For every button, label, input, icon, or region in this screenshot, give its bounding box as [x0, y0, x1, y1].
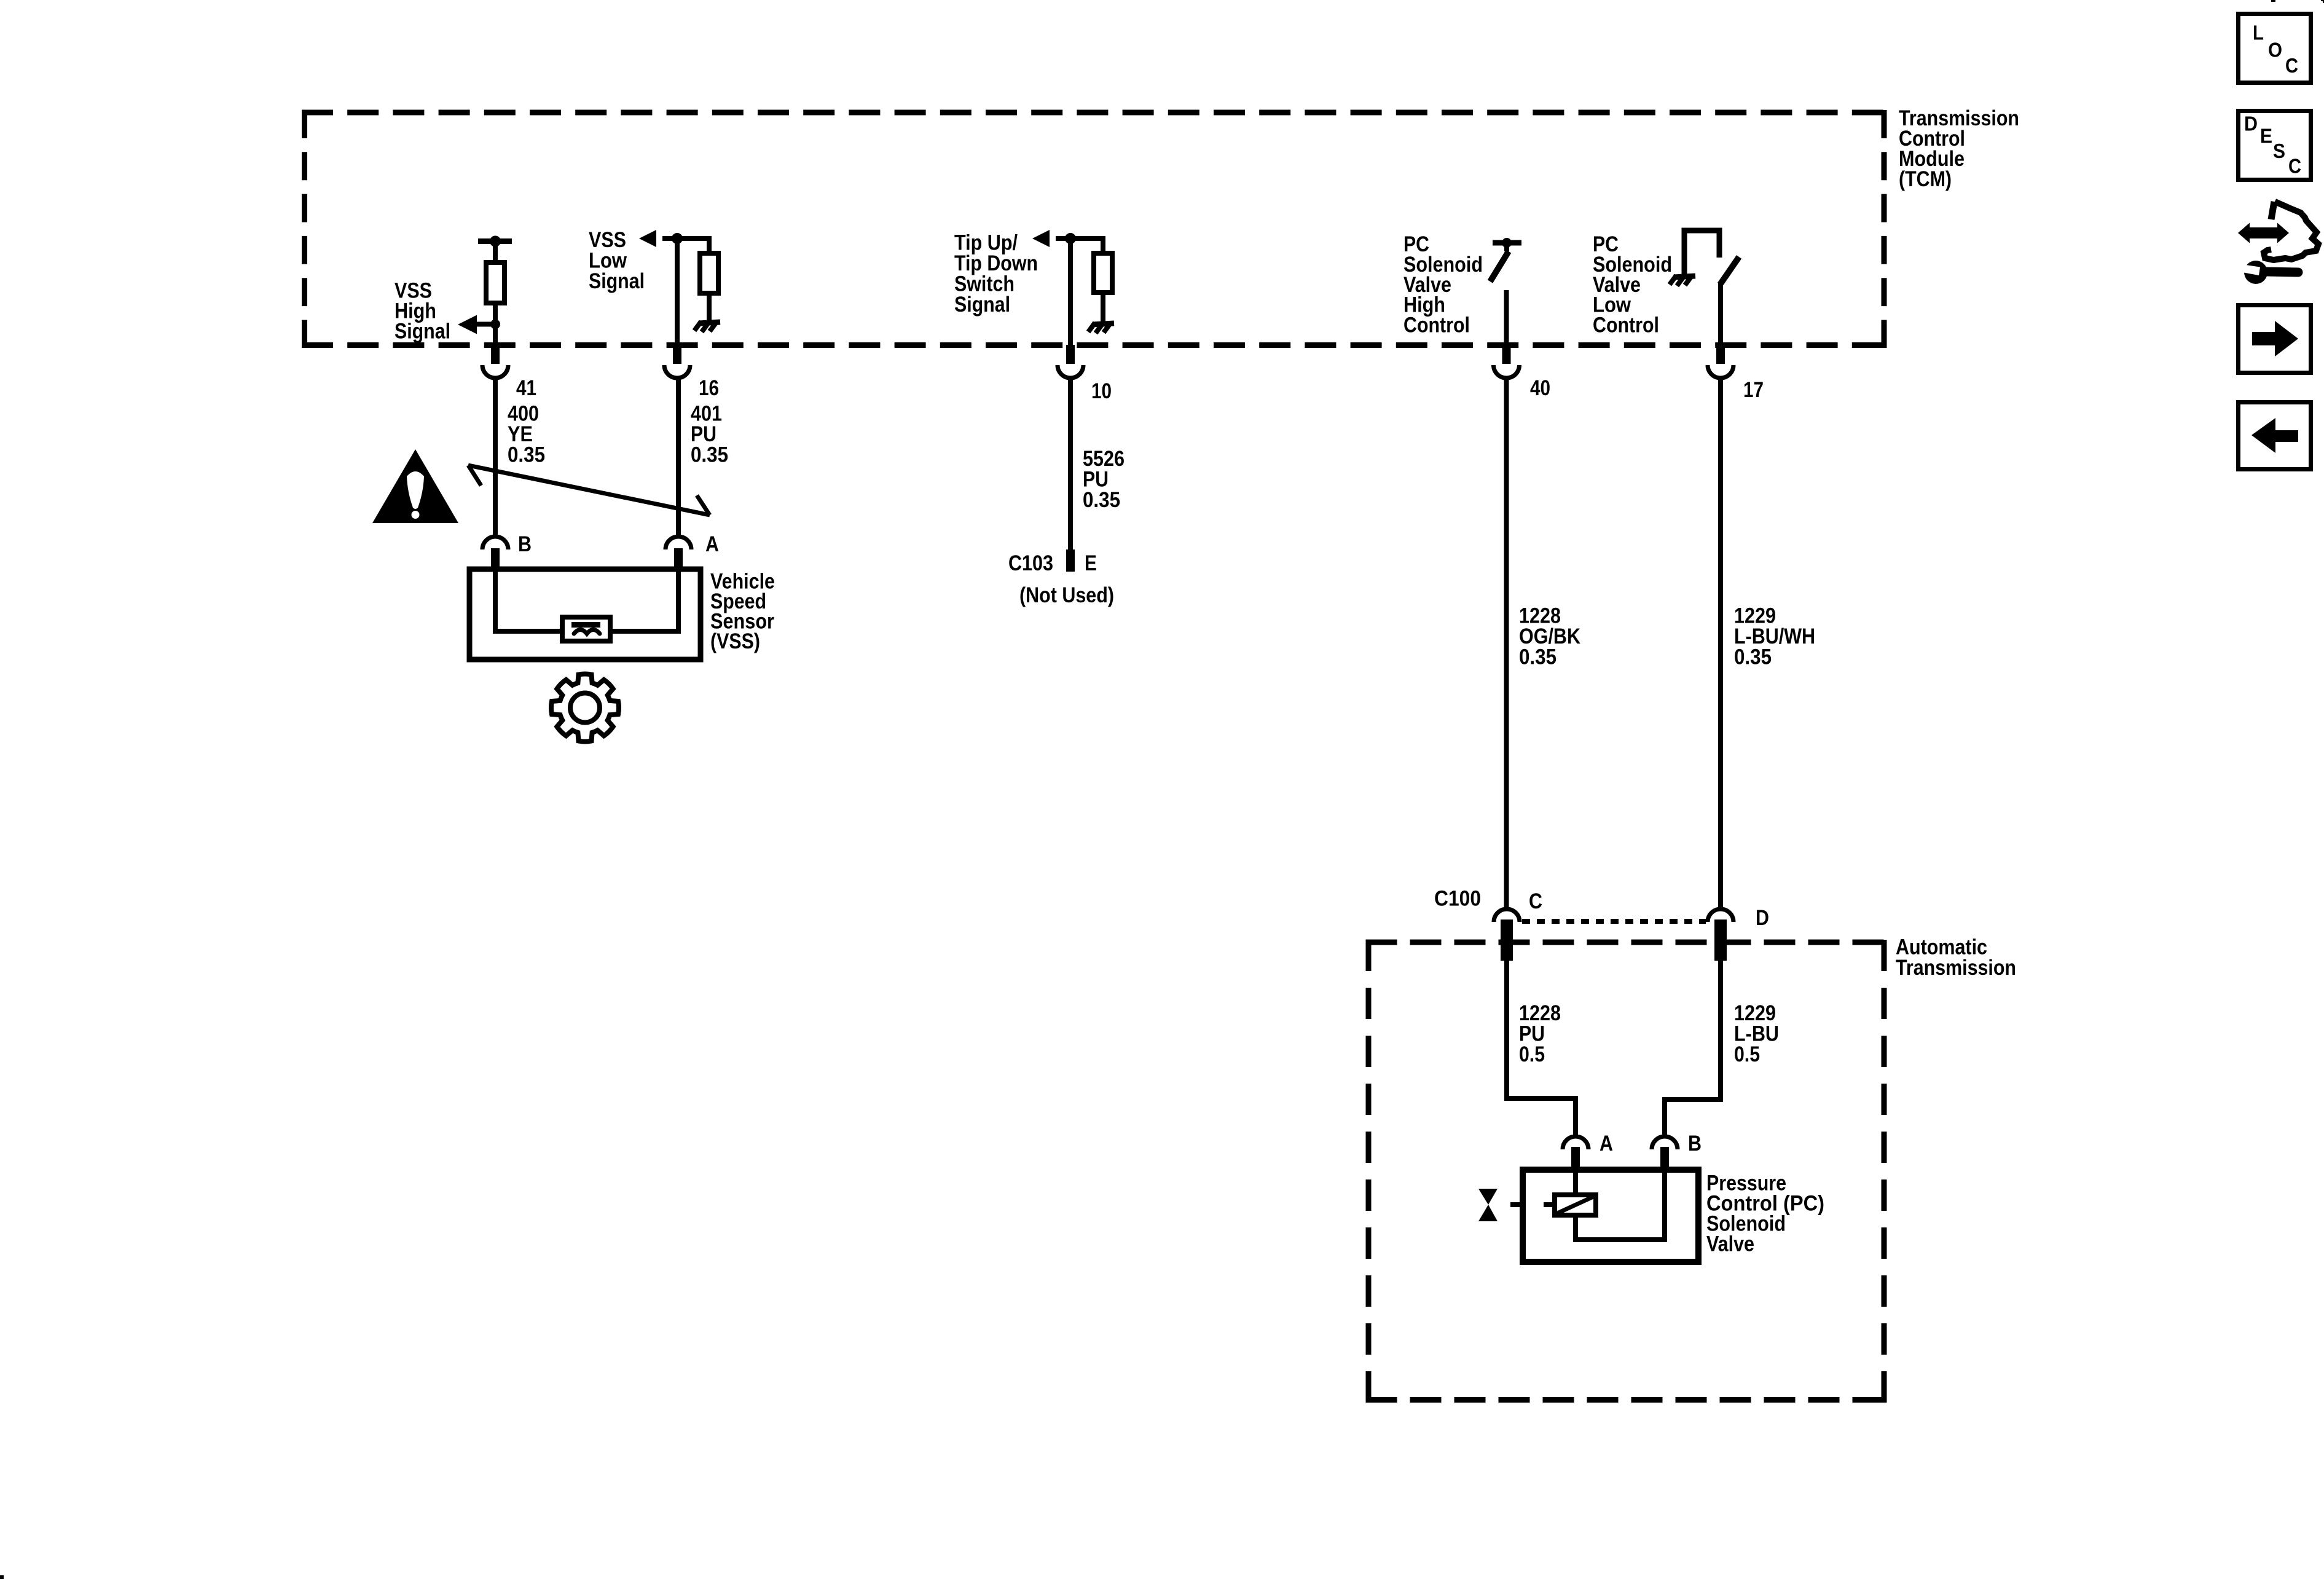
node: VSS low junction dot	[672, 233, 683, 244]
pin 17 terminal stub	[1716, 345, 1725, 364]
PC low ground hook	[1684, 230, 1719, 275]
wire: arrow to VSS low junction	[662, 236, 677, 241]
wire 400 YE label	[508, 402, 545, 467]
pin 16 terminal stub	[673, 345, 681, 364]
sidebar next (right arrow) button	[2239, 305, 2311, 373]
VSS high bias bar	[478, 238, 512, 244]
warning triangle exclamation mark	[407, 471, 424, 509]
wire 1228 OG/BK label	[1519, 604, 1580, 669]
svg-text:Signal: Signal	[954, 293, 1010, 317]
PC Solenoid Valve Low Control label	[1593, 232, 1672, 337]
pin 16 connector cup	[664, 365, 690, 378]
wire: A into coil	[1573, 1170, 1578, 1196]
svg-text:D: D	[2244, 112, 2258, 135]
wire 1229 L-BU 0.5 label	[1734, 1001, 1779, 1066]
Automatic Transmission dashed box	[1366, 940, 1885, 1403]
PC high driver dot	[1502, 238, 1512, 248]
svg-text:C: C	[2288, 155, 2301, 178]
C100 terminal C stub	[1501, 919, 1513, 961]
ground (VSS low internal)	[694, 321, 720, 332]
VSS terminal B stub	[491, 548, 500, 569]
wire: junction right to resistor branch	[677, 238, 709, 254]
svg-text:S: S	[2273, 140, 2285, 162]
TCM module dashed box	[302, 110, 1884, 348]
C100 connector dotted tie line	[1522, 919, 1706, 924]
wire: tip signal down to pin 10	[1068, 238, 1073, 348]
svg-text:0.35: 0.35	[1083, 488, 1120, 512]
svg-text:C100: C100	[1434, 887, 1481, 911]
page corner mark bottom-left	[0, 1575, 4, 1579]
wire: 16 to VSS A	[676, 379, 681, 536]
wire 401 PU label	[691, 402, 728, 467]
svg-text:E: E	[2260, 125, 2272, 148]
svg-text:10: 10	[1091, 379, 1112, 403]
arrowhead: VSS Low Signal	[639, 230, 656, 247]
switch blade (PC low driver)	[1720, 257, 1739, 285]
svg-text:Control: Control	[1403, 313, 1470, 337]
Pressure Control (PC) Solenoid Valve label	[1706, 1171, 1824, 1256]
wire: junction right to resistor branch	[1070, 238, 1103, 254]
wire: resistor to junction	[493, 303, 498, 328]
wire: PC low to pin 17	[1718, 283, 1723, 348]
wire 1229 L-BU/WH label	[1734, 604, 1815, 669]
wire: 10 down to C103	[1068, 379, 1073, 551]
wire: bias bar to resistor	[493, 241, 498, 262]
svg-text:(VSS): (VSS)	[710, 629, 760, 653]
svg-text:0.35: 0.35	[508, 443, 545, 467]
pin 40 connector cup	[1494, 365, 1520, 378]
PC solenoid valve box	[1523, 1170, 1698, 1262]
VSS sensing element bar	[571, 622, 600, 628]
Vehicle Speed Sensor (VSS) label	[710, 570, 775, 654]
VSS terminal A cup	[665, 537, 691, 549]
C100 terminal D cup	[1708, 909, 1733, 922]
svg-text:0.35: 0.35	[1519, 645, 1557, 669]
switch blade (PC high driver)	[1490, 251, 1509, 282]
svg-text:Signal: Signal	[589, 269, 645, 293]
wire: VSS high down to pin 41	[493, 325, 498, 348]
gear hub hole	[570, 693, 600, 723]
gear icon (reluctor wheel)	[551, 674, 619, 741]
wire: junction to left arrow	[476, 322, 495, 327]
PC high driver contact stub	[1504, 243, 1509, 251]
node: tip signal junction dot	[1065, 233, 1076, 244]
solenoid terminal A stub	[1571, 1147, 1580, 1170]
VSS sensing element coil squiggle	[574, 630, 600, 634]
svg-text:B: B	[518, 532, 532, 556]
pin 40 terminal stub	[1502, 345, 1511, 364]
wire: sensor to A	[609, 569, 678, 631]
svg-text:C: C	[1529, 889, 1542, 913]
svg-text:0.35: 0.35	[691, 443, 728, 467]
VSS sensing element box	[562, 617, 610, 641]
svg-text:Valve: Valve	[1706, 1232, 1754, 1256]
VSS terminal B cup	[482, 537, 508, 549]
svg-text:C: C	[2285, 54, 2298, 77]
mechanical linkage dashes	[1510, 1202, 1555, 1207]
wire: 41 to VSS B	[493, 379, 498, 536]
resistor (VSS low pull-down)	[700, 253, 718, 293]
PC Solenoid Valve High Control label	[1403, 232, 1483, 337]
sidebar LOC button	[2239, 14, 2311, 83]
svg-text:Transmission: Transmission	[1896, 956, 2016, 980]
pin 41 terminal stub	[491, 345, 500, 364]
Tip Up/Tip Down Switch Signal label	[954, 231, 1038, 317]
svg-text:0.35: 0.35	[1734, 645, 1772, 669]
page corner tick top-right	[2321, 0, 2324, 3]
crossed-wires arrow	[468, 465, 710, 515]
Automatic Transmission label	[1896, 935, 2016, 980]
wire: B into sensor	[495, 569, 563, 631]
svg-text:C103: C103	[1008, 551, 1053, 575]
ground (tip signal internal)	[1088, 323, 1114, 333]
svg-text:41: 41	[516, 376, 536, 400]
hydraulic valve bowtie symbol	[1478, 1189, 1498, 1205]
arrowhead: Tip Up/Tip Down Switch Signal	[1032, 230, 1050, 247]
page edge tick top near sidebar	[2271, 0, 2275, 2]
svg-text:L: L	[2253, 22, 2264, 44]
wire: VSS low down to pin 16	[675, 238, 680, 348]
C100 terminal C cup	[1494, 909, 1520, 922]
wire: coil to B	[1576, 1170, 1665, 1240]
node: VSS high junction dot	[490, 320, 500, 329]
wire: C down and over to solenoid A	[1507, 961, 1576, 1136]
svg-text:D: D	[1756, 906, 1769, 930]
svg-text:A: A	[705, 532, 719, 556]
svg-text:(Not Used): (Not Used)	[1019, 583, 1114, 607]
sidebar harness routing double arrow	[2238, 223, 2289, 243]
sidebar wrench icon	[2244, 261, 2267, 284]
resistor (VSS high pull-up)	[486, 262, 504, 303]
VSS terminal A stub	[674, 548, 683, 569]
svg-text:17: 17	[1743, 378, 1764, 402]
VSS sensor box	[469, 569, 701, 660]
svg-text:Control: Control	[1593, 313, 1659, 337]
wire: PC high to pin 40	[1504, 290, 1509, 348]
wire 1228 PU 0.5 label	[1519, 1001, 1561, 1066]
wire 5526 PU label	[1083, 447, 1125, 512]
svg-text:16: 16	[699, 376, 719, 400]
sidebar back (left arrow) button	[2239, 403, 2311, 470]
svg-text:A: A	[1600, 1132, 1613, 1156]
sidebar harness routing icon outline	[2264, 202, 2318, 260]
solenoid terminal B stub	[1660, 1147, 1669, 1170]
VSS high bias dot	[490, 236, 501, 247]
solenoid coil symbol	[1555, 1195, 1596, 1215]
wire: resistor to ground	[1101, 293, 1105, 323]
wire: 17 down to C100 D	[1718, 379, 1723, 910]
pin 10 connector cup	[1058, 365, 1083, 378]
PC high driver bar	[1493, 240, 1521, 246]
pin 10 terminal stub	[1066, 345, 1075, 364]
VSS Low Signal label	[589, 228, 645, 293]
C103 terminal stub	[1066, 549, 1075, 572]
ground (PC low internal)	[1670, 275, 1695, 286]
svg-text:O: O	[2268, 39, 2282, 61]
svg-text:(TCM): (TCM)	[1899, 167, 1952, 191]
pin 17 connector cup	[1708, 365, 1733, 378]
wire: arrow to tip junction	[1056, 236, 1070, 241]
svg-text:Signal: Signal	[395, 320, 450, 344]
resistor (tip signal pull-up)	[1094, 253, 1112, 293]
TCM label: Transmission Control Module (TCM)	[1899, 106, 2019, 191]
svg-text:40: 40	[1530, 376, 1550, 400]
svg-text:E: E	[1085, 551, 1097, 575]
arrowhead: VSS High Signal	[458, 315, 477, 334]
VSS High Signal label	[395, 279, 450, 344]
svg-text:B: B	[1688, 1132, 1702, 1156]
wire: 40 down to C100 C	[1504, 379, 1509, 910]
pin 41 connector cup	[482, 365, 508, 378]
wire: D down and over to solenoid B	[1665, 961, 1721, 1136]
svg-text:0.5: 0.5	[1734, 1042, 1760, 1066]
solenoid terminal A cup	[1563, 1136, 1588, 1149]
solenoid terminal B cup	[1652, 1136, 1678, 1149]
svg-text:0.5: 0.5	[1519, 1042, 1545, 1066]
wire: resistor to ground	[707, 293, 712, 321]
warning triangle	[372, 449, 458, 523]
sidebar DESC button	[2239, 111, 2311, 180]
C100 terminal D stub	[1714, 919, 1727, 961]
